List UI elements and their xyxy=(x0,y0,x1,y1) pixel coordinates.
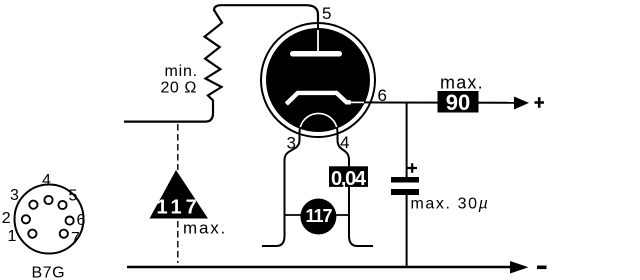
svg-text:117: 117 xyxy=(157,197,201,219)
pin 5 wire into tube xyxy=(317,22,319,31)
arrowhead minus output xyxy=(510,261,529,274)
svg-text:1: 1 xyxy=(8,228,17,245)
label + xyxy=(535,97,545,107)
svg-text:min.: min. xyxy=(165,63,198,80)
svg-text:2: 2 xyxy=(2,210,11,227)
node junction cap xyxy=(406,102,408,177)
voltage box 90 xyxy=(438,91,479,113)
svg-text:20 Ω: 20 Ω xyxy=(161,80,198,97)
wire AC top line xyxy=(124,100,213,122)
capacitor C plate bottom xyxy=(391,189,419,195)
tube V1 inner disc xyxy=(266,28,370,132)
socket pin 7 xyxy=(60,230,68,238)
svg-text:6: 6 xyxy=(77,212,86,229)
svg-text:5: 5 xyxy=(69,188,78,205)
heater loop xyxy=(300,114,338,133)
svg-text:B7G: B7G xyxy=(32,265,66,280)
svg-text:0,04: 0,04 xyxy=(331,168,367,190)
anode bar xyxy=(290,51,342,57)
dashed measuring line xyxy=(177,124,179,263)
B7G socket outline xyxy=(15,185,84,254)
svg-text:7: 7 xyxy=(71,230,80,247)
label minus xyxy=(537,265,547,269)
current label box 0,04 xyxy=(329,166,368,187)
heater connect wire xyxy=(285,214,350,216)
svg-text:5: 5 xyxy=(322,4,331,23)
svg-text:max.: max. xyxy=(183,219,227,238)
socket pin 6 xyxy=(66,217,74,225)
output wire pin6 to plus xyxy=(364,101,514,103)
svg-text:4: 4 xyxy=(42,172,51,189)
capacitor C (max. 30u) plate top xyxy=(391,177,419,183)
pin 6 wire (inside disc) xyxy=(351,101,367,103)
wire cap to rail xyxy=(406,195,408,267)
svg-text:90: 90 xyxy=(446,90,470,115)
arrowhead plus output xyxy=(514,97,529,110)
svg-text:max. 30µ: max. 30µ xyxy=(411,196,490,213)
bottom rail minus xyxy=(127,266,510,268)
socket pin 2 xyxy=(22,215,30,223)
socket pin 5 xyxy=(58,201,66,209)
wire pin 3 xyxy=(262,131,300,246)
svg-text:117: 117 xyxy=(306,206,333,226)
socket pin 4 xyxy=(44,196,52,204)
svg-text:3: 3 xyxy=(287,134,296,153)
heater voltage circle 117 xyxy=(300,199,336,235)
resistor R (min. 20 ohm) xyxy=(205,5,318,99)
svg-text:4: 4 xyxy=(340,133,349,152)
tube V1 outer envelope xyxy=(261,23,375,137)
capacitor polarity + xyxy=(408,163,418,172)
cathode xyxy=(286,93,351,104)
socket pin 1 xyxy=(28,230,36,238)
mains voltage triangle 117 max xyxy=(150,170,209,219)
svg-text:3: 3 xyxy=(10,187,19,204)
wire pin 4 xyxy=(338,131,374,246)
socket pin 3 xyxy=(29,201,37,209)
